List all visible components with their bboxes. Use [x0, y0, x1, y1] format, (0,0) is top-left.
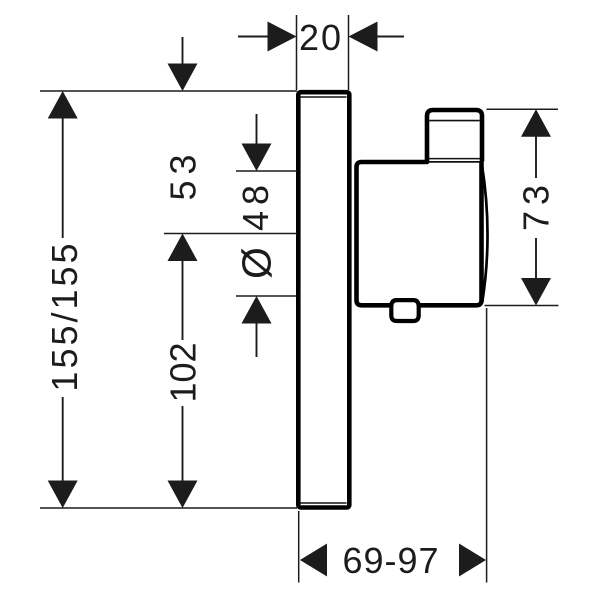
extension line: plate top — [40, 90, 297, 92]
plate inner top line — [300, 96, 347, 98]
svg-text:102: 102 — [163, 342, 204, 402]
dimension 20: right arrow — [349, 22, 378, 52]
svg-text:Ø: Ø — [234, 247, 280, 279]
dimension 73: top extension line — [487, 108, 559, 110]
bottom tab — [391, 300, 418, 321]
svg-text:53: 53 — [163, 148, 204, 200]
dimension 69-97: right arrow — [459, 544, 486, 577]
dimension 69-97: left arrow — [300, 544, 327, 577]
extension line: dia48 bottom — [236, 295, 297, 297]
dimension dia48: bottom outside arrow — [242, 296, 272, 324]
body top thin double line under knob — [427, 158, 481, 160]
dimension 73: bottom extension line — [485, 305, 559, 307]
dimension 20: left arrow — [238, 36, 272, 38]
svg-text:48: 48 — [235, 179, 276, 231]
extension line: dia48 top — [236, 170, 297, 172]
plate inner bottom line — [300, 502, 347, 504]
dimension 155/155: bottom arrow — [62, 397, 64, 483]
stop knob on top — [427, 110, 482, 162]
dimension 53: top outside arrow — [182, 37, 184, 67]
extension line: handle axis (53/102 junction) — [164, 233, 297, 235]
dimension dia48: top outside arrow — [256, 114, 258, 147]
svg-text:69-97: 69-97 — [342, 540, 439, 581]
dimension 73: top arrow — [521, 109, 551, 137]
dimension 73: bottom arrow — [535, 238, 537, 281]
dimension 155/155: top arrow — [48, 91, 78, 119]
escutcheon plate (side view) — [298, 92, 349, 507]
dimension 69-97: right extension vertical — [486, 308, 488, 583]
dimension 102: top arrow (up, at handle axis) — [168, 234, 198, 262]
svg-text:155/155: 155/155 — [44, 240, 85, 391]
svg-text:73: 73 — [516, 179, 557, 231]
dimension 102: bottom arrow — [182, 406, 184, 483]
svg-text:20: 20 — [299, 17, 343, 58]
dimension 69-97: left extension vertical — [298, 511, 300, 583]
valve body — [357, 162, 482, 305]
dimension 20: extension verticals — [296, 15, 298, 90]
body right arc (cylinder silhouette) — [482, 164, 488, 302]
knob inner line — [429, 120, 479, 122]
extension line: plate bottom — [40, 507, 297, 509]
